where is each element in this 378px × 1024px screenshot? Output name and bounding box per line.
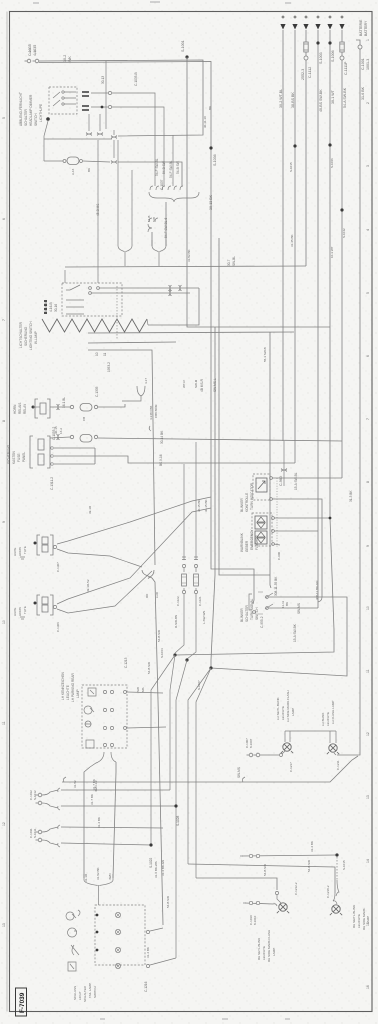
wire flasher stub xyxy=(274,544,280,545)
svg-text:LH SIDE MARK.FLASH: LH SIDE MARK.FLASH xyxy=(286,690,290,722)
indicator terminal 2 xyxy=(270,498,273,501)
svg-text:C-1037: C-1037 xyxy=(160,179,164,190)
svg-text:L-SW-WS: L-SW-WS xyxy=(202,611,206,624)
wire lamp r3 out xyxy=(127,727,166,728)
C-1306 ground mark xyxy=(20,617,25,619)
svg-text:S-1015: S-1015 xyxy=(342,860,346,870)
svg-text:308-11-55 BK: 308-11-55 BK xyxy=(274,576,278,596)
relay2 bracket box xyxy=(30,436,50,468)
svg-text:11: 11 xyxy=(2,721,6,725)
svg-text:8-1010: 8-1010 xyxy=(253,915,257,925)
border trim line xyxy=(6,12,8,1012)
tail switch symbols xyxy=(66,910,80,920)
terminal C-1011 a xyxy=(38,830,42,834)
connector pair b xyxy=(111,161,117,164)
svg-text:9: 9 xyxy=(2,521,6,523)
svg-text:C-1112: C-1112 xyxy=(308,67,312,78)
wire lh flasher ground xyxy=(334,753,336,755)
svg-text:SWITCH: SWITCH xyxy=(34,113,38,126)
svg-text:10-3 WT: 10-3 WT xyxy=(330,246,334,258)
svg-text:4-348 CB6: 4-348 CB6 xyxy=(149,405,153,420)
tail switch contact y915 xyxy=(115,912,120,917)
svg-text:10: 10 xyxy=(366,606,370,610)
C-1307 terminal xyxy=(53,545,56,548)
wire switch out 332 xyxy=(88,332,294,333)
svg-text:PANEL: PANEL xyxy=(22,452,26,462)
svg-text:C-1033-B: C-1033-B xyxy=(134,72,138,86)
svg-text:40-BS SW-BK: 40-BS SW-BK xyxy=(319,89,323,112)
svg-text:LAMP: LAMP xyxy=(291,708,295,716)
svg-text:SICHERUNG: SICHERUNG xyxy=(7,444,11,464)
svg-text:C-1217: C-1217 xyxy=(289,762,293,772)
svg-text:RELAIS: RELAIS xyxy=(18,403,22,414)
wire battery feed 5 xyxy=(175,30,334,655)
svg-text:31-4 BK: 31-4 BK xyxy=(146,947,150,958)
svg-text:S-1012: S-1012 xyxy=(33,790,37,800)
terminal C-1012 a xyxy=(38,793,42,797)
svg-text:30-13: 30-13 xyxy=(101,76,105,84)
branch split Y xyxy=(142,570,163,925)
wire ground link xyxy=(337,754,360,756)
svg-text:C-900: C-900 xyxy=(277,551,281,560)
svg-text:4B MS-R: 4B MS-R xyxy=(200,378,204,392)
battery feed arrow 3 xyxy=(303,24,308,30)
fuse C-1112 xyxy=(304,42,308,52)
svg-text:7: 7 xyxy=(2,319,6,321)
wire tail sw r2 xyxy=(150,928,163,931)
wire C-1011 upper xyxy=(61,827,163,828)
svg-text:31-4 BK: 31-4 BK xyxy=(97,817,101,828)
front lamp box xyxy=(82,685,127,748)
svg-text:C-1035: C-1035 xyxy=(28,44,32,56)
wire under-merge left xyxy=(84,767,90,878)
svg-text:30-13 BK: 30-13 BK xyxy=(209,194,213,210)
svg-text:LH BLINK: LH BLINK xyxy=(321,713,325,726)
wire relay1 out xyxy=(33,406,40,408)
svg-text:S-1042: S-1042 xyxy=(342,228,346,238)
C-1306 terminal xyxy=(53,605,56,608)
turn indicator box xyxy=(253,474,270,500)
relay1 node xyxy=(32,406,35,409)
battery feed arrow 6 xyxy=(339,24,344,30)
svg-text:R-SW-BN: R-SW-BN xyxy=(174,615,178,628)
svg-text:8: 8 xyxy=(366,481,370,483)
splice S-1022 xyxy=(149,843,152,846)
svg-text:KASTEN: KASTEN xyxy=(12,451,16,464)
hook C-1010 xyxy=(273,904,277,906)
svg-text:1953-2: 1953-2 xyxy=(107,362,111,372)
flasher bus dotted xyxy=(276,478,278,548)
svg-text:30-2 WT-BL: 30-2 WT-BL xyxy=(279,89,283,108)
flasher box xyxy=(252,513,272,546)
svg-text:TUTE: TUTE xyxy=(23,606,27,614)
svg-text:30-15 BK: 30-15 BK xyxy=(204,499,208,512)
fuse column C-1122 connector xyxy=(182,557,186,560)
svg-text:LAMP: LAMP xyxy=(366,916,370,924)
svg-text:S-1015: S-1015 xyxy=(289,162,293,172)
wire 30 bus xyxy=(64,270,66,283)
wire V219 xyxy=(219,238,270,575)
svg-text:W-LAMP: W-LAMP xyxy=(34,331,38,344)
wire S-1001 branch xyxy=(187,57,330,327)
svg-text:SW-MS: SW-MS xyxy=(297,603,301,614)
svg-text:GEBER: GEBER xyxy=(245,540,249,552)
wire battery tap xyxy=(356,40,360,45)
wire rear feed 856 xyxy=(242,855,337,856)
terminal C-1007 b xyxy=(256,753,260,757)
terminal C-1035 a xyxy=(27,59,31,63)
svg-text:11: 11 xyxy=(103,352,107,356)
svg-text:TURN INDICATOR: TURN INDICATOR xyxy=(250,482,254,510)
svg-text:HORN: HORN xyxy=(13,404,17,414)
svg-text:SW-MS-L: SW-MS-L xyxy=(213,378,217,392)
svg-text:54-B SW: 54-B SW xyxy=(307,860,311,872)
wire indicator feed xyxy=(272,477,342,479)
splice S-1036 xyxy=(209,146,212,149)
wire arcs chain xyxy=(113,140,115,158)
wire fan d xyxy=(188,668,211,864)
terminal C-1217 xyxy=(280,754,283,757)
wire relay1 feed xyxy=(50,406,70,408)
svg-text:BK: BK xyxy=(87,168,91,172)
wire dimmer out lo xyxy=(91,106,108,108)
LH flasher lamp xyxy=(329,744,337,752)
wire lamp B lead1 xyxy=(57,508,211,604)
wire ground bus xyxy=(62,756,358,782)
svg-text:TURN SIGNAL: TURN SIGNAL xyxy=(250,598,254,620)
svg-text:45-B MS: 45-B MS xyxy=(96,204,100,216)
flasher terminal 2 xyxy=(272,530,275,533)
connector brace C-1037 xyxy=(150,186,183,190)
svg-text:TAIL LAMP: TAIL LAMP xyxy=(88,983,92,998)
splice b xyxy=(185,658,188,661)
svg-text:WT-R: WT-R xyxy=(182,380,186,388)
wire switch row2 xyxy=(91,292,190,294)
svg-text:S-1001: S-1001 xyxy=(181,40,185,52)
svg-text:4: 4 xyxy=(366,229,370,231)
C-1307 bracket box xyxy=(37,535,53,555)
svg-text:RH SIDE MARK.FLASH: RH SIDE MARK.FLASH xyxy=(267,930,271,962)
C-1012 pins xyxy=(42,788,60,810)
wire lamp lead A xyxy=(86,524,142,566)
svg-text:7: 7 xyxy=(366,418,370,420)
tail switch contact y932 xyxy=(115,929,120,934)
tail switch terminal r4 xyxy=(146,964,149,967)
svg-text:8-1007: 8-1007 xyxy=(249,738,253,748)
headlamp switch contacts xyxy=(89,287,92,290)
terminal loop right xyxy=(80,160,83,163)
svg-text:BATTERY: BATTERY xyxy=(364,20,368,36)
wire loop V44 xyxy=(43,139,45,161)
wire fuse C-1111P lower xyxy=(341,52,343,56)
svg-text:LH FLASH.LAMP: LH FLASH.LAMP xyxy=(331,701,335,724)
svg-text:31-3 BK: 31-3 BK xyxy=(349,490,353,502)
svg-text:BLINKER: BLINKER xyxy=(240,608,244,622)
svg-text:30-11-10: 30-11-10 xyxy=(203,116,207,128)
wire lamp r1 out xyxy=(127,692,163,693)
svg-text:16-1 BL: 16-1 BL xyxy=(62,397,66,408)
svg-text:38-BS BK: 38-BS BK xyxy=(291,92,295,108)
svg-text:54-F SW-BL-6: 54-F SW-BL-6 xyxy=(164,217,168,238)
svg-text:3: 3 xyxy=(366,165,370,167)
svg-text:S-1028: S-1028 xyxy=(176,815,180,826)
svg-text:1001-3: 1001-3 xyxy=(366,59,370,70)
svg-text:54-A SW-BK: 54-A SW-BK xyxy=(343,87,347,108)
junction flasher battery xyxy=(329,517,332,520)
wire lh flasher lead a xyxy=(329,731,331,743)
ts pivot xyxy=(253,611,256,614)
svg-text:S-1036: S-1036 xyxy=(213,154,217,166)
C-1306 node xyxy=(34,602,37,605)
headlamp switch box xyxy=(62,283,122,316)
connector arcs row1 b xyxy=(179,285,182,291)
connector arcs relay2 xyxy=(57,434,60,440)
svg-text:BLINKER: BLINKER xyxy=(240,498,244,512)
svg-text:MS: MS xyxy=(141,688,145,693)
svg-text:C-1213: C-1213 xyxy=(124,657,128,668)
tail switch node y932 xyxy=(96,931,99,934)
svg-text:8: 8 xyxy=(2,420,6,422)
C-1011 pins xyxy=(42,825,60,847)
svg-text:FUSE: FUSE xyxy=(17,453,21,462)
svg-text:S-1006: S-1006 xyxy=(331,50,335,62)
svg-text:39-1R-52: 39-1R-52 xyxy=(86,579,90,592)
svg-text:4-1035: 4-1035 xyxy=(33,45,37,56)
wire switch row1 xyxy=(99,287,199,289)
fuse C-1111P xyxy=(340,42,344,52)
connector C-1112 xyxy=(304,56,308,60)
wire CB1 out xyxy=(98,404,125,407)
LH side marker lamp xyxy=(283,743,291,751)
connector arcs row2 a xyxy=(169,290,172,296)
svg-text:SW-MS: SW-MS xyxy=(237,767,241,778)
rh marker merge xyxy=(333,880,339,904)
terminal C-1011 b xyxy=(38,838,42,842)
wire battery feed 3 xyxy=(305,30,307,42)
circuit breaker loop xyxy=(67,157,79,165)
svg-text:C-1001: C-1001 xyxy=(361,58,365,70)
svg-text:30-14 BK: 30-14 BK xyxy=(160,430,164,444)
C-1306 bracket box xyxy=(37,595,53,615)
svg-text:31-6 BK-WS: 31-6 BK-WS xyxy=(154,861,158,878)
svg-text:LICHT: LICHT xyxy=(78,991,82,1000)
ground bus hook b xyxy=(242,777,245,782)
svg-text:54-B SW: 54-B SW xyxy=(157,630,161,642)
svg-text:CB: CB xyxy=(82,417,86,421)
splice S-1003 xyxy=(316,41,319,44)
svg-text:F-7039: F-7039 xyxy=(19,992,26,1013)
wire main bus 30-7 xyxy=(65,266,306,267)
wire C-1217 to lamp xyxy=(282,751,285,754)
svg-text:ABBLEND-FERNLICHT: ABBLEND-FERNLICHT xyxy=(19,92,23,126)
svg-text:S-1066: S-1066 xyxy=(330,158,334,168)
splice S-1015 xyxy=(335,853,338,856)
wire tail sw r4 xyxy=(150,958,176,965)
svg-text:HUPE: HUPE xyxy=(13,548,17,556)
svg-text:54-B SW: 54-B SW xyxy=(263,864,267,876)
wire C-1012 lower xyxy=(61,805,176,807)
svg-text:CB8 BDM: CB8 BDM xyxy=(154,404,158,418)
svg-text:WARNBLINK: WARNBLINK xyxy=(240,532,244,552)
svg-text:LICHTSCHALTER: LICHTSCHALTER xyxy=(19,321,23,348)
relay1 bracket box xyxy=(35,399,50,418)
wire fuse to connector xyxy=(305,52,307,56)
svg-text:RH SETL.BLINK: RH SETL.BLINK xyxy=(257,938,261,960)
terminal C-1012 b xyxy=(38,801,42,805)
tail switch contact y950 xyxy=(115,947,120,952)
svg-text:C-1122: C-1122 xyxy=(176,596,180,606)
svg-text:16: 16 xyxy=(366,985,370,989)
svg-text:31-4 BK-GN: 31-4 BK-GN xyxy=(161,860,165,876)
svg-text:31-1R: 31-1R xyxy=(84,873,88,882)
wire battery feed 6 upper xyxy=(341,30,343,42)
flasher terminal 1 xyxy=(272,517,275,520)
splice S-1006 xyxy=(328,41,331,44)
wire lamp B lead2 xyxy=(57,571,152,613)
svg-text:HUPE: HUPE xyxy=(13,608,17,616)
splice S-1066 xyxy=(328,143,331,146)
svg-text:SCHALTER: SCHALTER xyxy=(83,985,87,1002)
wire brace out xyxy=(165,202,167,246)
wire mid stub xyxy=(96,138,132,170)
wire lamp A lead2 xyxy=(57,549,142,567)
fuse column C-1121 connector xyxy=(194,557,198,560)
svg-text:LH SEITL.BLINK: LH SEITL.BLINK xyxy=(276,697,280,720)
svg-text:RELAY: RELAY xyxy=(23,403,27,414)
dimmer switch contacts xyxy=(53,92,76,106)
wire fuse col 2 down xyxy=(187,594,196,659)
wire lh flasher lead b xyxy=(335,731,337,743)
svg-text:C-1335: C-1335 xyxy=(95,386,99,397)
battery feed arrow 5 xyxy=(327,24,332,30)
wire battery feed 3 lower xyxy=(305,60,307,266)
wire loop H139 xyxy=(44,138,112,140)
scan marks xyxy=(33,2,291,1019)
wire rear feed 866 xyxy=(188,864,335,893)
svg-text:5: 5 xyxy=(366,292,370,294)
svg-text:15-A SW-BL: 15-A SW-BL xyxy=(294,472,298,490)
connector inline hi xyxy=(108,91,111,94)
svg-text:54-B: 54-B xyxy=(147,216,151,222)
wire lamp A lead1 xyxy=(57,497,211,544)
wire conn a xyxy=(113,130,115,135)
svg-text:5: 5 xyxy=(2,117,6,119)
connector C-1001 xyxy=(358,45,362,49)
svg-text:SWITCH: SWITCH xyxy=(255,607,259,620)
svg-text:C-1121: C-1121 xyxy=(198,596,202,606)
wire dimmer pivot link xyxy=(44,121,48,139)
wire fan a xyxy=(151,655,175,845)
svg-text:31-52: 31-52 xyxy=(73,780,77,788)
svg-text:11: 11 xyxy=(366,669,370,673)
connector arcs dimmer a xyxy=(86,133,92,136)
wire C-1007 xyxy=(260,754,279,756)
svg-text:LH KENNZEICHEN: LH KENNZEICHEN xyxy=(61,671,65,700)
svg-text:SWITCH: SWITCH xyxy=(93,986,97,998)
wire C-1212 to lamp xyxy=(277,895,281,903)
connector C-960 xyxy=(281,469,287,472)
svg-text:30-15: 30-15 xyxy=(54,426,58,434)
svg-text:HORN: HORN xyxy=(18,547,22,556)
svg-text:C-1311-2: C-1311-2 xyxy=(50,477,54,490)
tail switch terminal r2 xyxy=(146,930,149,933)
tail switch box xyxy=(95,905,145,965)
dimmer switch box xyxy=(49,87,77,114)
svg-text:LEUCHTE: LEUCHTE xyxy=(66,685,70,700)
connector C-1212 xyxy=(275,891,278,894)
relay2 row terminals xyxy=(51,447,54,450)
svg-text:C-1218-2: C-1218-2 xyxy=(326,885,330,898)
svg-text:RH SEITL.BLINK: RH SEITL.BLINK xyxy=(352,905,356,928)
svg-text:LAMP: LAMP xyxy=(76,689,80,698)
wire fan b xyxy=(170,655,175,790)
tail switch node y915 xyxy=(96,914,99,917)
wire battery feed 2 xyxy=(294,30,296,463)
wire loop H161b xyxy=(83,161,110,162)
svg-text:54-B SW: 54-B SW xyxy=(162,161,166,174)
flasher terminal 3 xyxy=(272,543,275,546)
wire flasher feed 2 xyxy=(274,530,318,532)
svg-text:SCHALTER: SCHALTER xyxy=(245,605,249,622)
RH side marker lamp xyxy=(332,905,340,913)
wire battery 1 pigtail xyxy=(283,441,285,486)
svg-text:WK: WK xyxy=(68,56,72,62)
wire lh marker lead a xyxy=(284,731,286,742)
svg-text:10: 10 xyxy=(95,352,99,356)
svg-text:C-1211: C-1211 xyxy=(336,760,340,770)
svg-text:SICHERUNG: SICHERUNG xyxy=(24,326,28,346)
wire S-1015 drop xyxy=(336,857,338,880)
svg-text:54-B SW: 54-B SW xyxy=(176,161,180,174)
svg-text:C-1111P: C-1111P xyxy=(344,61,348,75)
switch dashed divider xyxy=(116,286,118,340)
svg-text:LH PARKING REAR: LH PARKING REAR xyxy=(71,672,75,702)
ts switch contacts xyxy=(249,593,273,610)
switch terminal block xyxy=(44,301,47,313)
wire dimmer feed xyxy=(105,61,107,129)
svg-text:15-A SW-BK: 15-A SW-BK xyxy=(293,623,297,642)
front lamp terminal r1 xyxy=(124,691,127,694)
wire battery feed 4 xyxy=(317,30,319,608)
terminal CB2 right xyxy=(94,435,97,438)
svg-text:SW: SW xyxy=(136,687,140,692)
wire relay2 row2 xyxy=(54,455,95,457)
terminal CB1 right xyxy=(94,405,97,408)
svg-text:C-1306: C-1306 xyxy=(56,622,60,632)
svg-text:4-16-B: 4-16-B xyxy=(49,302,53,312)
fuse column C-1121 xyxy=(194,564,197,567)
connector pair C-1009 xyxy=(240,855,243,857)
wire relay2 out xyxy=(95,456,295,463)
wire battery feed 1 xyxy=(282,30,284,441)
wire zigzag end xyxy=(147,319,148,325)
svg-text:S-1064: S-1064 xyxy=(160,648,164,658)
svg-text:BK: BK xyxy=(208,106,212,110)
svg-text:31-52 BK: 31-52 BK xyxy=(187,249,191,262)
svg-text:HEADLAMP DIMMER: HEADLAMP DIMMER xyxy=(29,94,33,126)
wire C-1011 lower xyxy=(61,843,151,845)
C-1307 node xyxy=(34,542,37,545)
wire rear feed 878 xyxy=(196,878,277,890)
wire CB2 to battery xyxy=(98,438,342,441)
ground bus hook a xyxy=(63,777,66,782)
svg-text:4WD-1R: 4WD-1R xyxy=(94,780,98,792)
wire 30-2 WK xyxy=(39,60,203,136)
wire lh lamp bus xyxy=(285,730,336,732)
circuit breaker CB1 xyxy=(80,404,92,412)
svg-text:A-16: A-16 xyxy=(71,168,75,175)
svg-text:BK 9-16: BK 9-16 xyxy=(159,454,163,466)
